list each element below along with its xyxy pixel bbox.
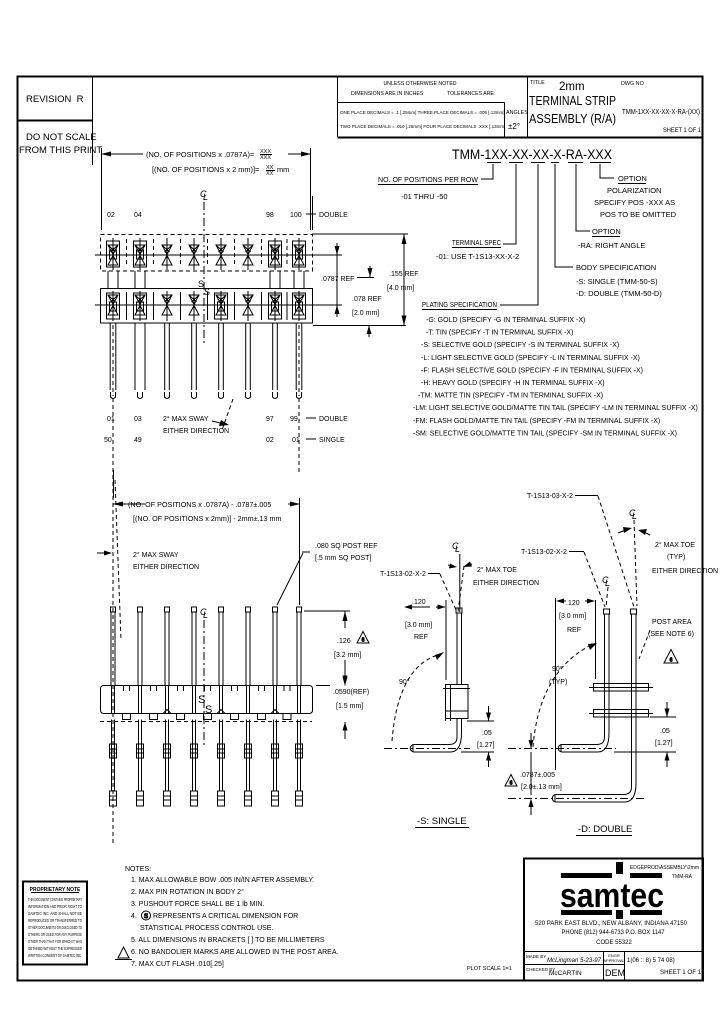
svg-text:.120: .120 [412, 599, 426, 606]
svg-text:L: L [605, 578, 610, 588]
top view row1 pin 6 [243, 238, 253, 270]
label: terminal spec [436, 238, 519, 261]
svg-text:[.5 mm SQ POST]: [.5 mm SQ POST] [315, 555, 371, 562]
label T-1S13-02-X-2 single [380, 571, 456, 610]
double view body bars [589, 684, 653, 718]
svg-text:-G: GOLD (SPECIFY -G IN TERMIN: -G: GOLD (SPECIFY -G IN TERMINAL SUFFIX … [426, 317, 585, 324]
double view front centerline symbol [602, 575, 610, 588]
svg-text:UNLESS OTHERWISE NOTED: UNLESS OTHERWISE NOTED [383, 81, 456, 87]
front view post pin 1 [111, 607, 116, 685]
svg-text:[(NO. OF POSITIONS x 2mm)] - 2: [(NO. OF POSITIONS x 2mm)] - 2mm±.13 mm [133, 514, 282, 523]
made by cell [526, 954, 602, 964]
body bottom tabs [123, 714, 292, 720]
svg-text:-D: DOUBLE: -D: DOUBLE [578, 824, 632, 835]
svg-text:[1.5 mm]: [1.5 mm] [336, 703, 363, 710]
double view rear centerline symbol [629, 508, 637, 521]
do not scale note [19, 132, 102, 156]
svg-text:TERMINAL SPEC: TERMINAL SPEC [452, 238, 501, 247]
label: option polarization [594, 174, 677, 219]
tolerance block [338, 77, 704, 138]
svg-text:2. MAX PIN ROTATION IN BODY 2°: 2. MAX PIN ROTATION IN BODY 2° [131, 888, 244, 896]
svg-text:-S: SINGLE: -S: SINGLE [417, 816, 467, 827]
row2 segment separators [127, 292, 288, 320]
sway dashed line front view [112, 475, 114, 845]
svg-text:100: 100 [290, 212, 302, 219]
svg-text:-S: SELECTIVE GOLD (SPECIFY -S: -S: SELECTIVE GOLD (SPECIFY -S IN TERMIN… [421, 342, 619, 349]
svg-text:±2°: ±2° [508, 122, 520, 131]
svg-text:49: 49 [134, 437, 142, 444]
leader: body spec [555, 164, 573, 267]
post area note [639, 619, 694, 659]
svg-text:DO NOT SCALE: DO NOT SCALE [26, 132, 97, 143]
single view pin through body and bend [410, 719, 461, 753]
pin 100 centerline dashed [298, 398, 300, 473]
revision box [18, 77, 93, 166]
top view tail pin 1 [110, 323, 116, 399]
svg-text:.126: .126 [337, 638, 351, 645]
ext line body top right [312, 233, 408, 235]
svg-text:3. PUSHOUT FORCE SHALL BE 1 lb: 3. PUSHOUT FORCE SHALL BE 1 lb MIN. [131, 901, 264, 908]
svg-text:2° MAX TOE: 2° MAX TOE [655, 541, 695, 549]
svg-text:2° MAX TOE: 2° MAX TOE [477, 566, 517, 574]
top view row2 pin 5 [215, 291, 228, 321]
sway centerline pin1 (dashed continues) [112, 398, 114, 473]
pin lines through body [112, 686, 301, 714]
svg-text:MADE BY: MADE BY [526, 954, 546, 959]
body notch chevrons [163, 710, 279, 714]
svg-text:EITHER DIRECTION: EITHER DIRECTION [652, 568, 718, 575]
svg-text:-FM: FLASH GOLD/MATTE TIN TAIL: -FM: FLASH GOLD/MATTE TIN TAIL (SPECIFY … [413, 418, 660, 425]
svg-text:03: 03 [134, 416, 142, 423]
svg-text:TMM-RA: TMM-RA [672, 874, 693, 880]
title block box [524, 859, 703, 981]
double view front pin cap [604, 609, 610, 614]
single view pin cap [456, 608, 462, 613]
svg-text:(NO. OF POSITIONS x .0787A) -: (NO. OF POSITIONS x .0787A) - .0787±.005 [128, 500, 271, 509]
svg-text:PLOT SCALE 1=1: PLOT SCALE 1=1 [467, 966, 512, 972]
double rear pin bend [552, 783, 636, 802]
svg-text:1. MAX ALLOWABLE BOW .005 IN/I: 1. MAX ALLOWABLE BOW .005 IN/IN AFTER AS… [131, 877, 314, 884]
note4 spc circle symbol [142, 911, 151, 920]
svg-text:.078 REF: .078 REF [352, 296, 382, 303]
svg-text:REPRESENTS A CRITICAL DIMENSIO: REPRESENTS A CRITICAL DIMENSION FOR [153, 913, 298, 920]
front view tail pin 6 [245, 720, 252, 807]
svg-text:(SEE NOTE 6): (SEE NOTE 6) [648, 631, 694, 638]
svg-text:(TYP): (TYP) [667, 554, 685, 561]
svg-text:SPECIFY POS -XXX AS: SPECIFY POS -XXX AS [594, 198, 675, 207]
svg-text:98: 98 [266, 212, 274, 219]
svg-text:EITHER DIRECTION: EITHER DIRECTION [163, 428, 229, 435]
top view tail pin 5 [219, 323, 224, 399]
section S letters on body [198, 694, 212, 716]
svg-text:mm: mm [277, 165, 289, 174]
svg-text:7. MAX CUT FLASH .010[.25]: 7. MAX CUT FLASH .010[.25] [131, 961, 224, 968]
label: body specification [576, 263, 662, 298]
svg-text:6. NO BANDOLIER MARKS ARE ALLO: 6. NO BANDOLIER MARKS ARE ALLOWED IN THE… [131, 949, 339, 956]
top view tail pin 8 [296, 323, 302, 399]
svg-text:[3.0 mm]: [3.0 mm] [405, 622, 432, 629]
arrow below bottom ext [367, 326, 372, 338]
dim .155 ref label [387, 271, 419, 292]
top view row2 pin 7 [269, 291, 282, 321]
leader: positions per row [481, 164, 493, 179]
dim: no of positions x .0787 (top view) [101, 148, 311, 230]
-S single label [415, 816, 469, 828]
svg-text:TERMINAL STRIP: TERMINAL STRIP [529, 94, 616, 108]
top view row1 pin 7 [269, 238, 282, 270]
svg-text:TWO PLACE DECIMALS = .010 [.25: TWO PLACE DECIMALS = .010 [.25mm] FOUR P… [340, 124, 505, 129]
svg-text:[3.0 mm]: [3.0 mm] [559, 613, 586, 620]
engr approval cell [603, 953, 625, 963]
arrowheads top dim [101, 152, 111, 157]
svg-text:CODE 55322: CODE 55322 [596, 940, 632, 946]
ext line body bottom right [313, 325, 406, 327]
svg-text:REF: REF [567, 627, 581, 634]
svg-text:S: S [144, 914, 148, 920]
svg-text:L: L [632, 511, 637, 521]
svg-text:520 PARK EAST BLVD., NEW ALBA: 520 PARK EAST BLVD., NEW ALBANY, INDIANA… [535, 921, 688, 927]
svg-text:PLATING SPECIFICATION: PLATING SPECIFICATION [422, 300, 497, 309]
dim .0590 body height [343, 668, 348, 739]
svg-text:REVISION R: REVISION R [26, 94, 84, 105]
svg-text:McCARTIN: McCARTIN [549, 970, 582, 977]
svg-text:-D: DOUBLE (TMM-50-D): -D: DOUBLE (TMM-50-D) [576, 289, 662, 298]
svg-text:T-1S13-03-X-2: T-1S13-03-X-2 [527, 493, 573, 500]
row2 centerline [95, 304, 317, 306]
svg-text:samtec: samtec [560, 877, 664, 915]
centerline symbol front view [200, 607, 208, 620]
svg-text:OPTION: OPTION [592, 227, 621, 236]
svg-text:-01: USE T-1S13-XX-X-2: -01: USE T-1S13-XX-X-2 [436, 252, 519, 261]
svg-text:.0787 REF: .0787 REF [321, 276, 354, 283]
samtec logo [560, 862, 664, 919]
svg-text:L: L [203, 192, 208, 202]
2 deg max toe note double [652, 541, 718, 575]
svg-text:NOTES:: NOTES: [125, 866, 151, 873]
svg-text:THIS DOCUMENT CONTAINS PROPRIE: THIS DOCUMENT CONTAINS PROPRIETARY [28, 897, 82, 902]
rear toe dashed [634, 520, 637, 606]
svg-text:ASSEMBLY (R/A): ASSEMBLY (R/A) [529, 112, 616, 126]
address lines [535, 921, 688, 946]
top view tail pin 6 [246, 323, 251, 399]
svg-text:EITHER DIRECTION: EITHER DIRECTION [473, 580, 539, 587]
leader: polarization option [600, 164, 614, 178]
top pin number labels [107, 212, 302, 219]
double front tail centerline [508, 748, 616, 750]
front view tail pin 5 [218, 720, 225, 807]
notes list [125, 866, 339, 968]
svg-text:-T: TIN (SPECIFY -T IN TERMINA: -T: TIN (SPECIFY -T IN TERMINAL SUFFIX -… [426, 330, 573, 337]
svg-text:FROM THIS PRINT: FROM THIS PRINT [19, 145, 102, 156]
svg-text:SHEET 1 OF 1: SHEET 1 OF 1 [663, 127, 701, 134]
svg-text:OPTION: OPTION [618, 174, 647, 183]
title block inner lines [524, 952, 703, 981]
svg-text:[1.27]: [1.27] [655, 740, 673, 747]
centerline symbol top [200, 189, 208, 202]
svg-text:02: 02 [107, 212, 115, 219]
single view toe dashed line [458, 566, 464, 612]
svg-text:TMM-1XX-XX-XX-X-RA-XXX: TMM-1XX-XX-XX-X-RA-XXX [452, 146, 613, 162]
bottom pin numbers row (double) [107, 416, 298, 423]
top view row2 pin 6 [243, 291, 253, 321]
svg-text:POST AREA: POST AREA [652, 619, 692, 626]
arrows .078 dim [335, 243, 340, 317]
label double (top row) [306, 196, 348, 230]
leader: plating spec [500, 164, 538, 305]
front view tail pin 1 [110, 720, 117, 807]
rear toe arrows [618, 527, 650, 535]
top view row2 pin 2 [134, 291, 147, 321]
svg-text:.05: .05 [660, 728, 670, 735]
toe angle arrows single [448, 562, 472, 569]
top view row2 pin 3 [162, 291, 172, 321]
leader: terminal spec [503, 164, 516, 244]
row2 body outline (front row) [101, 289, 313, 324]
plating list [413, 317, 698, 437]
svg-text:OTHER THAN THAT FOR WHICH IT W: OTHER THAN THAT FOR WHICH IT WAS [28, 939, 82, 944]
svg-text:INFORMATION AND PRIOR RIGHT TO: INFORMATION AND PRIOR RIGHT TO [28, 904, 82, 909]
svg-text:T-1S13-02-X-2: T-1S13-02-X-2 [521, 549, 567, 556]
front view tail pin 2 [137, 720, 144, 807]
dim .126 vertical [343, 611, 348, 686]
double view rear pin [632, 614, 637, 787]
svg-text:.155 REF: .155 REF [389, 271, 419, 278]
dim .0787 ref label [321, 266, 374, 283]
svg-text:PHONE (812) 944-6733 P.O. BO: PHONE (812) 944-6733 P.O. BOX 1147 [562, 930, 666, 936]
svg-text:OBTAINED WITHOUT THE EXPRESSED: OBTAINED WITHOUT THE EXPRESSED [28, 946, 82, 951]
dim .120 double [556, 598, 596, 770]
section mark S between rows [198, 279, 210, 297]
note6 triangle flag [115, 947, 132, 960]
svg-text:-TM: MATTE TIN (SPECIFY -TM IN: -TM: MATTE TIN (SPECIFY -TM IN TERMINAL … [418, 393, 603, 400]
svg-text:XXX: XXX [260, 155, 271, 161]
double rear tail centerline [508, 798, 644, 800]
.080 sq post ref label [277, 543, 378, 605]
svg-text:DEM: DEM [605, 968, 625, 978]
top view row2 pin 4 [189, 291, 199, 321]
svg-text:BODY SPECIFICATION: BODY SPECIFICATION [576, 263, 656, 272]
.126 label with triangle 6 [334, 638, 361, 659]
svg-text:90°: 90° [399, 678, 410, 686]
sway ref line right [222, 399, 233, 430]
top view row2 pin 1 [107, 291, 120, 321]
svg-text:-L: LIGHT SELECTIVE GOLD (SPEC: -L: LIGHT SELECTIVE GOLD (SPECIFY -L IN … [421, 355, 640, 362]
single view pin vertical [457, 613, 462, 684]
svg-text:TOLERANCES ARE:: TOLERANCES ARE: [447, 91, 495, 97]
svg-text:McLingman 5-23-97: McLingman 5-23-97 [547, 958, 602, 964]
2 deg max sway note (top view) [163, 415, 229, 435]
dim .0787 label with triangle 6 [505, 775, 517, 787]
post area triangle 6 [664, 650, 678, 664]
leader: right angle option [576, 164, 590, 231]
svg-text:APPROVAL: APPROVAL [603, 958, 625, 963]
svg-text:POLARIZATION: POLARIZATION [607, 186, 661, 195]
svg-text:2° MAX SWAY: 2° MAX SWAY [133, 551, 179, 559]
single view body block [443, 685, 470, 722]
front view post pin 4 [192, 607, 197, 685]
label: option right angle [578, 227, 645, 250]
dwg no cell [621, 81, 701, 134]
dim .078 ref label [352, 296, 382, 317]
top view row1 pin 2 [134, 238, 147, 270]
label T-1S13-03-X-2 double [527, 493, 634, 607]
svg-text:04: 04 [134, 212, 142, 219]
svg-text:SINGLE: SINGLE [319, 437, 345, 444]
double view front pin [605, 614, 610, 737]
dim .05 double [614, 702, 676, 767]
svg-text:EITHER DIRECTION: EITHER DIRECTION [133, 564, 199, 571]
front view post pin 6 [246, 607, 251, 685]
svg-text:-F: FLASH SELECTIVE GOLD (SPEC: -F: FLASH SELECTIVE GOLD (SPECIFY -F IN … [421, 367, 643, 374]
front view tail pin 3 [164, 720, 171, 807]
top view tail pin 7 [273, 323, 278, 399]
svg-text:L: L [203, 610, 208, 620]
checked by cell [526, 967, 582, 977]
svg-text:S: S [205, 704, 212, 716]
svg-text:NO. OF POSITIONS PER ROW: NO. OF POSITIONS PER ROW [378, 175, 479, 184]
dim .120 single [412, 600, 446, 680]
front view post pin 5 [219, 607, 224, 685]
svg-text:2° MAX SWAY: 2° MAX SWAY [163, 415, 209, 423]
svg-text:[2.0±.13 mm]: [2.0±.13 mm] [521, 784, 562, 791]
label: no of positions per row [378, 175, 479, 201]
top view row1 pin 1 [107, 238, 120, 270]
label T-1S13-02-X-2 double [521, 549, 605, 607]
svg-text:[2.0 mm]: [2.0 mm] [352, 310, 379, 317]
-D double label [576, 824, 632, 836]
svg-text:ONE PLACE DECIMALS = .1 [.25mm: ONE PLACE DECIMALS = .1 [.25mm] THREE PL… [340, 110, 504, 115]
svg-text:WRITTEN CONSENT OF SAMTEC INC.: WRITTEN CONSENT OF SAMTEC INC. [28, 953, 82, 958]
svg-text:01: 01 [107, 416, 115, 423]
svg-text:[3.2 mm]: [3.2 mm] [334, 652, 361, 659]
dim .155 vertical [402, 234, 407, 326]
svg-text:DWG NO: DWG NO [621, 81, 644, 87]
part vertical centerline [203, 202, 205, 345]
svg-text:SHEET 1 OF 1: SHEET 1 OF 1 [660, 969, 702, 976]
top view row1 pin 5 [216, 238, 226, 270]
svg-text:POS TO BE OMITTED: POS TO BE OMITTED [600, 210, 677, 219]
svg-text:[(NO. OF POSITIONS x 2 mm)]=: [(NO. OF POSITIONS x 2 mm)]= [152, 165, 259, 174]
svg-text:OTHERS OR USED FOR ANY PURPOSE: OTHERS OR USED FOR ANY PURPOSE [28, 932, 82, 937]
svg-text:REF: REF [414, 634, 428, 641]
front view body outline [101, 686, 313, 714]
body separators front [124, 686, 291, 692]
svg-text:T-1S13-02-X-2: T-1S13-02-X-2 [380, 571, 426, 578]
body inner dashed line [100, 721, 312, 723]
svg-text:TMM-1XX-XX-XX-X-RA-(XX): TMM-1XX-XX-XX-X-RA-(XX) [622, 107, 700, 116]
svg-text:(TYP): (TYP) [549, 679, 567, 686]
top view tail pin 4 [192, 323, 197, 399]
svg-text:[4.0 mm]: [4.0 mm] [387, 285, 414, 292]
row1 body outline (dashed, rear row) [101, 235, 313, 272]
svg-text:.05: .05 [482, 730, 492, 737]
top view row2 pin 8 [293, 291, 306, 321]
front view tail pin 4 [191, 720, 198, 807]
svg-text:XX: XX [266, 171, 274, 177]
svg-text:99: 99 [290, 416, 298, 423]
svg-text:6: 6 [510, 781, 513, 787]
svg-text:STATISTICAL PROCESS CONTROL US: STATISTICAL PROCESS CONTROL USE. [140, 925, 273, 932]
ext ticks rows centerline [316, 255, 342, 305]
row1 centerline [95, 254, 317, 256]
svg-text:(NO. OF POSITIONS x .0787A)=: (NO. OF POSITIONS x .0787A)= [146, 150, 254, 159]
part number callout TMM-1XX-XX-XX-X-RA-XXX [452, 146, 613, 162]
top view tail pin 2 [135, 323, 145, 399]
dim: positions minus one pitch (front view) [113, 470, 300, 605]
double front pin bend [558, 733, 609, 752]
dim .05 single [461, 706, 494, 767]
svg-text:-RA: RIGHT ANGLE: -RA: RIGHT ANGLE [578, 241, 645, 250]
front view post pin 7 [273, 607, 278, 685]
svg-text:OTHER DOCUMENTS OR DISCLOSED T: OTHER DOCUMENTS OR DISCLOSED TO [28, 925, 82, 930]
svg-text:DIMENSIONS ARE IN INCHES: DIMENSIONS ARE IN INCHES [351, 91, 424, 97]
front view post pin 3 [165, 607, 170, 685]
svg-text:TITLE: TITLE [530, 80, 545, 86]
svg-text:1(06 :: 8) 5 74 08): 1(06 :: 8) 5 74 08) [627, 958, 675, 964]
front view post pin 2 [138, 607, 143, 685]
svg-text:2mm: 2mm [559, 81, 585, 93]
svg-text:.0787±.005: .0787±.005 [520, 772, 555, 779]
svg-text:-LM: LIGHT SELECTIVE GOLD/MATT: -LM: LIGHT SELECTIVE GOLD/MATTE TIN TAIL… [413, 405, 698, 412]
single tail centerline [384, 748, 470, 750]
dim .0787 tail gap arrows [529, 733, 534, 815]
2 deg max toe note single [473, 566, 539, 587]
double view rear pin cap [631, 609, 637, 614]
title cell [529, 80, 616, 126]
svg-text:[1.27]: [1.27] [477, 742, 495, 749]
svg-text:-01 THRU -50: -01 THRU -50 [401, 192, 448, 201]
part number underlines [487, 162, 611, 164]
svg-text:L: L [455, 544, 460, 554]
front view tail pin 8 [296, 720, 303, 807]
svg-text:01: 01 [292, 437, 300, 444]
svg-text:-SM: SELECTIVE GOLD/MATTE TIN: -SM: SELECTIVE GOLD/MATTE TIN TAIL (SPEC… [413, 430, 677, 437]
top view row1 pin 8 [293, 238, 306, 270]
svg-text:5. ALL DIMENSIONS IN BRACKETS: 5. ALL DIMENSIONS IN BRACKETS [ ] TO BE … [131, 937, 325, 944]
ext lines for .126 dim [304, 611, 350, 686]
90 deg arc double [533, 643, 597, 747]
top view row1 pin 3 [162, 238, 172, 270]
svg-text:6: 6 [362, 638, 365, 644]
front toe dashed double [606, 587, 608, 608]
svg-text:.0590(REF): .0590(REF) [333, 689, 369, 696]
top view tail pin 3 [165, 323, 170, 399]
row1 segment separators [127, 239, 288, 267]
90 degree arc single [392, 652, 444, 741]
svg-text:4.: 4. [131, 913, 137, 920]
svg-text:SAMTEC INC. AND SHALL NOT BE: SAMTEC INC. AND SHALL NOT BE [28, 911, 82, 916]
svg-text:-H: HEAVY GOLD (SPECIFY -H IN: -H: HEAVY GOLD (SPECIFY -H IN TERMINAL S… [421, 380, 605, 387]
proprietary note box [23, 882, 87, 965]
svg-text:-S: SINGLE (TMM-50-S): -S: SINGLE (TMM-50-S) [576, 277, 658, 286]
svg-text:DOUBLE: DOUBLE [319, 416, 348, 423]
90 deg typ note double [549, 665, 567, 686]
svg-text:DOUBLE: DOUBLE [319, 212, 348, 219]
top view row1 pin 4 [189, 238, 199, 270]
front view tail pin 7 [272, 720, 279, 807]
inter-row body connections [108, 271, 304, 288]
svg-text:ANGLES: ANGLES [506, 110, 528, 116]
svg-text:6: 6 [670, 658, 673, 664]
svg-text:97: 97 [266, 416, 274, 423]
single view pin centerline extension [459, 554, 461, 612]
svg-text:EDGEPROD\ASSEMBLY\2mm: EDGEPROD\ASSEMBLY\2mm [630, 865, 699, 871]
bottom pin numbers row (single) [104, 437, 300, 444]
svg-text:.080 SQ POST REF: .080 SQ POST REF [315, 543, 378, 550]
svg-text:REPRODUCED OR TRANSFERRED TO: REPRODUCED OR TRANSFERRED TO [28, 918, 82, 923]
2 deg max sway note front [97, 551, 199, 572]
svg-text:50: 50 [104, 437, 112, 444]
